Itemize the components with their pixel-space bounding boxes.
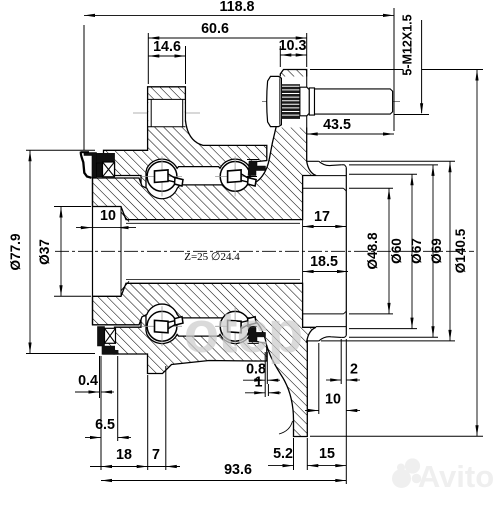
- svg-text:otcp: otcp: [184, 300, 302, 365]
- svg-text:Avito: Avito: [418, 459, 494, 494]
- svg-text:14.6: 14.6: [153, 39, 181, 55]
- svg-text:60.6: 60.6: [201, 21, 229, 37]
- svg-text:7: 7: [152, 447, 160, 463]
- svg-text:Ø60: Ø60: [389, 238, 404, 264]
- svg-text:6.5: 6.5: [95, 417, 115, 433]
- svg-text:Ø77.9: Ø77.9: [8, 233, 23, 270]
- svg-text:1: 1: [255, 375, 263, 391]
- svg-text:17: 17: [314, 209, 330, 225]
- svg-text:Ø69: Ø69: [429, 238, 444, 264]
- svg-text:2: 2: [350, 362, 358, 378]
- svg-text:5.2: 5.2: [273, 446, 293, 462]
- svg-text:43.5: 43.5: [323, 117, 351, 133]
- svg-text:10: 10: [325, 392, 341, 408]
- svg-text:Ø67: Ø67: [409, 238, 424, 264]
- svg-text:10: 10: [100, 208, 116, 224]
- svg-text:Ø140.5: Ø140.5: [453, 228, 468, 273]
- svg-text:18: 18: [116, 447, 132, 463]
- svg-text:0.4: 0.4: [78, 373, 98, 389]
- svg-text:5-M12X1.5: 5-M12X1.5: [401, 14, 415, 75]
- svg-text:15: 15: [319, 446, 335, 462]
- svg-text:118.8: 118.8: [220, 0, 255, 15]
- svg-text:Z=25 ∅24.4: Z=25 ∅24.4: [184, 251, 240, 263]
- svg-text:Ø37: Ø37: [37, 239, 52, 265]
- svg-text:93.6: 93.6: [224, 462, 252, 478]
- svg-text:10.3: 10.3: [279, 38, 307, 54]
- svg-text:Ø48.8: Ø48.8: [365, 232, 380, 269]
- svg-text:18.5: 18.5: [310, 254, 338, 270]
